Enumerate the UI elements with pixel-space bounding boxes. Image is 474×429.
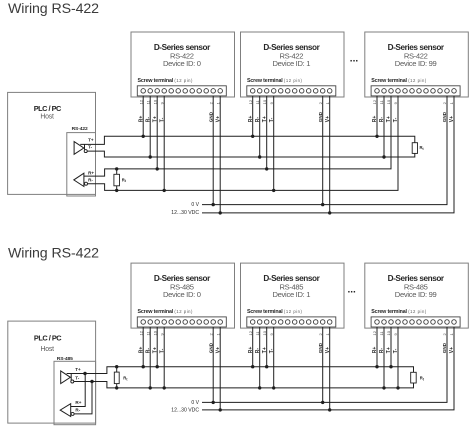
svg-text:T+: T+ [386, 347, 392, 353]
svg-text:R+: R+ [372, 116, 378, 123]
svg-text:T-: T- [88, 145, 93, 150]
svg-text:T+: T+ [386, 116, 392, 122]
svg-text:T-: T- [159, 348, 165, 353]
svg-text:R+: R+ [75, 400, 81, 405]
svg-text:...: ... [348, 285, 357, 296]
svg-text:10: 10 [152, 99, 157, 104]
svg-text:R+: R+ [88, 170, 94, 175]
svg-text:Wiring RS-422: Wiring RS-422 [8, 1, 99, 17]
svg-text:R-: R- [145, 117, 151, 123]
svg-text:Device ID: 1: Device ID: 1 [272, 59, 310, 68]
svg-text:Host: Host [41, 346, 55, 353]
svg-text:12: 12 [138, 330, 143, 335]
svg-text:12: 12 [372, 99, 377, 104]
svg-text:RS-485: RS-485 [57, 356, 73, 362]
svg-text:V+: V+ [325, 116, 331, 122]
svg-text:V+: V+ [215, 347, 221, 353]
svg-text:R-: R- [145, 348, 151, 354]
svg-text:V+: V+ [449, 116, 455, 122]
svg-text:T-: T- [159, 117, 165, 122]
svg-text:PLC / PC: PLC / PC [34, 334, 62, 343]
svg-text:10: 10 [386, 330, 391, 335]
svg-text:Device ID: 99: Device ID: 99 [395, 290, 437, 299]
svg-text:GND: GND [318, 111, 323, 122]
svg-text:V+: V+ [325, 347, 331, 353]
svg-text:RS-422: RS-422 [72, 126, 88, 132]
svg-text:10: 10 [386, 99, 391, 104]
svg-text:R-: R- [75, 407, 80, 412]
svg-text:PLC / PC: PLC / PC [34, 104, 62, 113]
svg-text:R+: R+ [138, 116, 144, 123]
svg-text:0 V: 0 V [191, 202, 199, 208]
svg-text:T+: T+ [152, 347, 158, 353]
svg-text:0 V: 0 V [191, 400, 199, 406]
svg-text:10: 10 [262, 330, 267, 335]
svg-text:GND: GND [208, 342, 213, 353]
svg-text:Host: Host [40, 114, 54, 121]
svg-text:GND: GND [208, 111, 213, 122]
svg-text:T-: T- [269, 348, 275, 353]
svg-text:T+: T+ [262, 116, 268, 122]
svg-text:R+: R+ [248, 347, 254, 354]
svg-text:Device ID: 0: Device ID: 0 [163, 290, 201, 299]
svg-text:12: 12 [248, 330, 253, 335]
svg-text:10: 10 [152, 330, 157, 335]
svg-text:...: ... [350, 54, 359, 65]
svg-text:R-: R- [88, 177, 93, 182]
svg-text:R+: R+ [248, 116, 254, 123]
svg-text:12...30 VDC: 12...30 VDC [171, 210, 199, 216]
svg-text:12: 12 [138, 99, 143, 104]
svg-text:T+: T+ [75, 367, 81, 372]
svg-text:T-: T- [393, 117, 399, 122]
svg-text:R-: R- [255, 117, 261, 123]
svg-text:R+: R+ [138, 347, 144, 354]
svg-text:10: 10 [262, 99, 267, 104]
svg-text:R-: R- [379, 117, 385, 123]
svg-text:GND: GND [442, 342, 447, 353]
svg-text:V+: V+ [449, 347, 455, 353]
svg-text:T-: T- [75, 375, 80, 380]
svg-text:T+: T+ [152, 116, 158, 122]
svg-text:12...30 VDC: 12...30 VDC [171, 408, 199, 414]
svg-text:R-: R- [255, 348, 261, 354]
svg-text:GND: GND [318, 342, 323, 353]
svg-text:Device ID: 1: Device ID: 1 [272, 290, 310, 299]
svg-text:12: 12 [248, 99, 253, 104]
svg-text:Wiring RS-422: Wiring RS-422 [8, 245, 99, 261]
svg-text:12: 12 [372, 330, 377, 335]
svg-text:T+: T+ [88, 137, 94, 142]
svg-text:R+: R+ [372, 347, 378, 354]
svg-text:V+: V+ [215, 116, 221, 122]
svg-text:Device ID: 99: Device ID: 99 [395, 59, 437, 68]
svg-text:Device ID: 0: Device ID: 0 [163, 59, 201, 68]
svg-text:T+: T+ [262, 347, 268, 353]
svg-text:T-: T- [269, 117, 275, 122]
svg-text:T-: T- [393, 348, 399, 353]
svg-text:GND: GND [442, 111, 447, 122]
svg-text:R-: R- [379, 348, 385, 354]
